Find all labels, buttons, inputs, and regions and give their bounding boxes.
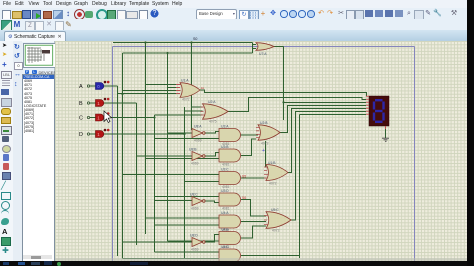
svg-text:4069: 4069 bbox=[191, 247, 199, 251]
wire U3:C output to U1:B bbox=[241, 177, 266, 179]
svg-text:U1:B: U1:B bbox=[268, 161, 276, 165]
wire U3:B output to U1:B bbox=[241, 139, 256, 156]
svg-text:D: D bbox=[79, 132, 83, 138]
svg-text:4075: 4075 bbox=[209, 119, 217, 123]
left toolbar icons bbox=[0, 41, 14, 261]
svg-text:4081: 4081 bbox=[222, 162, 230, 166]
svg-text:U3:C: U3:C bbox=[221, 168, 229, 172]
menu bar bbox=[0, 0, 467, 8]
svg-text:B: B bbox=[79, 101, 83, 107]
wire top net bbox=[113, 43, 253, 54]
svg-text:4081: 4081 bbox=[222, 206, 230, 210]
or-gate U5:C bbox=[264, 208, 291, 233]
wire column B x136 bbox=[90, 103, 137, 245]
logicstate input B bbox=[79, 98, 109, 108]
svg-text:U3:B: U3:B bbox=[221, 145, 229, 149]
not-gate U8:B bbox=[189, 148, 205, 166]
and-gate U4:C bbox=[219, 245, 241, 262]
wire column x167 bbox=[167, 53, 169, 241]
or-gate U7:A bbox=[256, 43, 274, 56]
svg-text:U7:A: U7:A bbox=[259, 52, 267, 56]
wire U8:C output to U3:D bbox=[205, 201, 219, 203]
svg-text:U3:A: U3:A bbox=[221, 125, 229, 129]
wire U8:A input bbox=[168, 132, 193, 134]
wire display pin c from riser bbox=[284, 101, 367, 103]
wire column x145 bbox=[145, 43, 147, 235]
wire U1:A inputs bbox=[118, 85, 177, 94]
svg-text:C: C bbox=[79, 116, 83, 122]
ground bbox=[382, 138, 389, 141]
not-gate U8:C bbox=[190, 193, 205, 211]
right black bar bbox=[467, 0, 474, 266]
svg-text:U2:A: U2:A bbox=[208, 100, 216, 104]
svg-text:U4:C: U4:C bbox=[221, 245, 229, 249]
or-gate U1:A bbox=[176, 79, 204, 102]
mouse cursor bbox=[104, 111, 112, 123]
wire U8:C input bbox=[155, 200, 193, 202]
wire U8:D input bbox=[123, 241, 193, 243]
bottom black bar bbox=[0, 261, 474, 266]
svg-text:S6: S6 bbox=[242, 196, 246, 200]
wire U8:A output to U3:A bbox=[205, 132, 219, 134]
svg-text:U3:D: U3:D bbox=[221, 189, 229, 193]
wire U2:A inputs bbox=[155, 107, 203, 115]
junction dots bbox=[121, 41, 284, 135]
and-gate U4:A bbox=[219, 211, 241, 232]
overview window bbox=[23, 43, 56, 68]
and-gate U3:C bbox=[219, 168, 246, 189]
svg-text:4072: 4072 bbox=[269, 182, 277, 186]
parts list bbox=[22, 74, 55, 262]
svg-text:U8:C: U8:C bbox=[190, 193, 198, 197]
middle strip (rotate icons) bbox=[13, 41, 22, 261]
and-gate U3:B bbox=[219, 145, 241, 166]
svg-text:4069: 4069 bbox=[191, 161, 199, 165]
sheet border bbox=[113, 47, 415, 262]
wire U8:D output to U4:B bbox=[205, 235, 219, 243]
svg-text:A: A bbox=[79, 84, 83, 90]
svg-text:4072: 4072 bbox=[261, 142, 269, 146]
not-gate U8:A bbox=[192, 125, 205, 143]
schematic canvas bbox=[55, 41, 467, 261]
wire U3:A output to U2:B bbox=[239, 134, 259, 136]
wire U4:B input2 bbox=[168, 240, 220, 242]
svg-text:4069: 4069 bbox=[194, 138, 202, 142]
not-gate U8:D bbox=[190, 234, 205, 252]
wire column D x184 bbox=[90, 107, 185, 259]
svg-text:S5: S5 bbox=[242, 175, 246, 179]
wire U1:B output to display pin e bbox=[288, 108, 366, 172]
svg-text:4069: 4069 bbox=[191, 206, 199, 210]
wire column A x117 bbox=[90, 86, 118, 256]
svg-text:U5:C: U5:C bbox=[271, 208, 279, 212]
tab bar bbox=[0, 30, 467, 41]
wire U3:C inputs bbox=[123, 175, 220, 182]
wire display common to ground bbox=[385, 129, 387, 138]
node label S0 on top wire bbox=[193, 37, 197, 41]
svg-text:1A: 1A bbox=[201, 86, 205, 90]
wire U8:B input bbox=[137, 155, 193, 157]
svg-text:+: + bbox=[262, 148, 265, 154]
wire U4:B output to U5:C bbox=[241, 226, 266, 238]
wire second top net bbox=[123, 53, 253, 250]
7-segment display bbox=[366, 96, 389, 129]
wire U2:B output to display pin d bbox=[280, 105, 366, 132]
and-gate U3:D bbox=[219, 189, 246, 210]
svg-text:U4:A: U4:A bbox=[221, 211, 229, 215]
wire U3:D input1 bbox=[155, 196, 220, 198]
wire column C x154 bbox=[90, 115, 155, 252]
Base Design combo bbox=[196, 9, 237, 20]
toolbar row 2 bbox=[0, 19, 467, 31]
svg-text:U8:A: U8:A bbox=[194, 125, 202, 129]
wire U4:C inputs bbox=[123, 250, 220, 259]
wire U4:A inputs bbox=[146, 218, 220, 225]
and-gate U4:B bbox=[219, 228, 241, 249]
svg-text:U2:B: U2:B bbox=[260, 121, 268, 125]
toolbar row 1 bbox=[0, 8, 467, 19]
or-gate U2:B bbox=[256, 121, 280, 146]
wire U3:A input2 bbox=[155, 138, 220, 140]
logicstate input A bbox=[79, 81, 109, 91]
svg-text:U4:B: U4:B bbox=[221, 228, 229, 232]
svg-text:U1:A: U1:A bbox=[181, 79, 189, 83]
wire U4:A output to U5:C bbox=[241, 221, 266, 223]
wire U3:D output to U5:C bbox=[241, 200, 266, 217]
or-gate U1:B bbox=[264, 161, 288, 186]
logicstate input C bbox=[79, 112, 109, 122]
panel/canvas divider bbox=[54, 41, 56, 261]
wire U3:B input2 bbox=[146, 158, 220, 160]
wire U4:C output riser to display pin g bbox=[241, 114, 366, 258]
wire column x191 bbox=[191, 43, 193, 131]
wire U2:A output to display pin b bbox=[228, 97, 366, 111]
or-gate U2:A bbox=[201, 100, 229, 124]
wire U7:A output riser bbox=[274, 47, 284, 121]
logicstate input D bbox=[79, 129, 109, 139]
P L DEVICES bbox=[22, 70, 54, 75]
wire U5:C output to display pin f bbox=[288, 111, 366, 220]
wire U8:B output to U3:B bbox=[205, 153, 219, 157]
svg-text:U8:B: U8:B bbox=[189, 148, 197, 152]
wire U1:A output to display pin a bbox=[200, 90, 367, 96]
svg-text:4072: 4072 bbox=[272, 229, 280, 233]
svg-text:4072: 4072 bbox=[182, 98, 190, 102]
and-gate U3:A bbox=[219, 125, 241, 146]
wire U2:B to U1:B connector bbox=[266, 141, 267, 167]
svg-text:U8:D: U8:D bbox=[190, 234, 198, 238]
wire U7:A inputs bbox=[253, 43, 257, 49]
